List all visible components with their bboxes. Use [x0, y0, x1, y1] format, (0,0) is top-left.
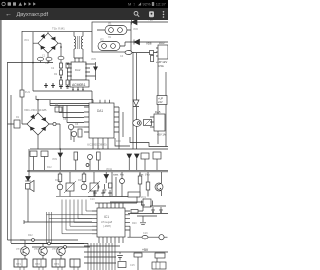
svg-text:T1k Л.М1: T1k Л.М1 — [52, 27, 65, 31]
svg-text:R8: R8 — [97, 148, 101, 151]
svg-text:ZQ1: ZQ1 — [141, 196, 146, 199]
svg-text:Л2: Л2 — [100, 38, 104, 42]
svg-text:VD1: VD1 — [24, 39, 29, 42]
svg-text:VD5: VD5 — [91, 58, 96, 61]
svg-text:R12: R12 — [47, 166, 52, 169]
svg-text:92%: 92% — [143, 1, 151, 6]
svg-text:C1: C1 — [42, 55, 46, 58]
svg-text:R2: R2 — [54, 73, 58, 76]
svg-text:+5V: +5V — [142, 248, 149, 252]
svg-text:VD1-VD4 Д242Б: VD1-VD4 Д242Б — [24, 108, 47, 112]
svg-text:VD11: VD11 — [106, 168, 113, 171]
svg-text:+UP: +UP — [158, 97, 163, 101]
svg-text:12:37: 12:37 — [156, 1, 167, 6]
svg-text:24V: 24V — [158, 100, 163, 104]
svg-text:Л1: Л1 — [108, 22, 112, 26]
svg-text:0.5A: 0.5A — [158, 64, 164, 68]
svg-text:VT1: VT1 — [16, 247, 21, 251]
svg-text:C2: C2 — [51, 67, 55, 70]
svg-text:VT3: VT3 — [52, 247, 57, 251]
svg-text:C1: C1 — [45, 61, 49, 65]
svg-text:VT2: VT2 — [34, 247, 39, 251]
svg-text:R20: R20 — [132, 222, 137, 225]
svg-text:↕: ↕ — [133, 1, 135, 6]
svg-text:C6: C6 — [75, 123, 79, 126]
svg-text:зам. На: зам. На — [113, 172, 124, 176]
svg-text:R22: R22 — [28, 234, 33, 237]
svg-text:DA2: DA2 — [75, 68, 81, 72]
svg-text:VD9: VD9 — [52, 158, 57, 161]
svg-text:C4: C4 — [120, 55, 124, 58]
svg-text:АСМ0В1: АСМ0В1 — [72, 83, 86, 87]
svg-text:DA1: DA1 — [97, 109, 103, 113]
svg-text:UC2855(3845): UC2855(3845) — [87, 143, 107, 147]
svg-text:+Uп: +Uп — [148, 20, 154, 22]
svg-text:IC1: IC1 — [104, 215, 109, 219]
svg-text:C5: C5 — [63, 118, 67, 121]
svg-text:+5V 1A: +5V 1A — [157, 133, 166, 137]
svg-text:DA3: DA3 — [159, 41, 165, 45]
svg-text:XT3: XT3 — [54, 262, 59, 266]
svg-text:Рег. Узр: Рег. Узр — [139, 172, 150, 176]
svg-text:FU1: FU1 — [25, 90, 30, 94]
svg-text:M: M — [128, 1, 131, 6]
svg-text:VD6: VD6 — [133, 28, 138, 31]
svg-text:DA5: DA5 — [155, 110, 161, 114]
svg-text:C15: C15 — [130, 264, 135, 267]
svg-text:XT1: XT1 — [16, 262, 21, 266]
svg-text:R1: R1 — [16, 116, 20, 119]
svg-text:C16: C16 — [143, 232, 148, 235]
svg-text:C10: C10 — [90, 198, 95, 201]
svg-text:R14: R14 — [55, 179, 60, 182]
svg-text:(-16PI): (-16PI) — [103, 224, 111, 228]
svg-text:R10: R10 — [116, 140, 121, 143]
svg-text:R15: R15 — [78, 179, 83, 182]
svg-text:VD8: VD8 — [146, 42, 152, 46]
svg-text:ATmega8: ATmega8 — [101, 220, 113, 224]
svg-text:XT2: XT2 — [35, 262, 40, 266]
